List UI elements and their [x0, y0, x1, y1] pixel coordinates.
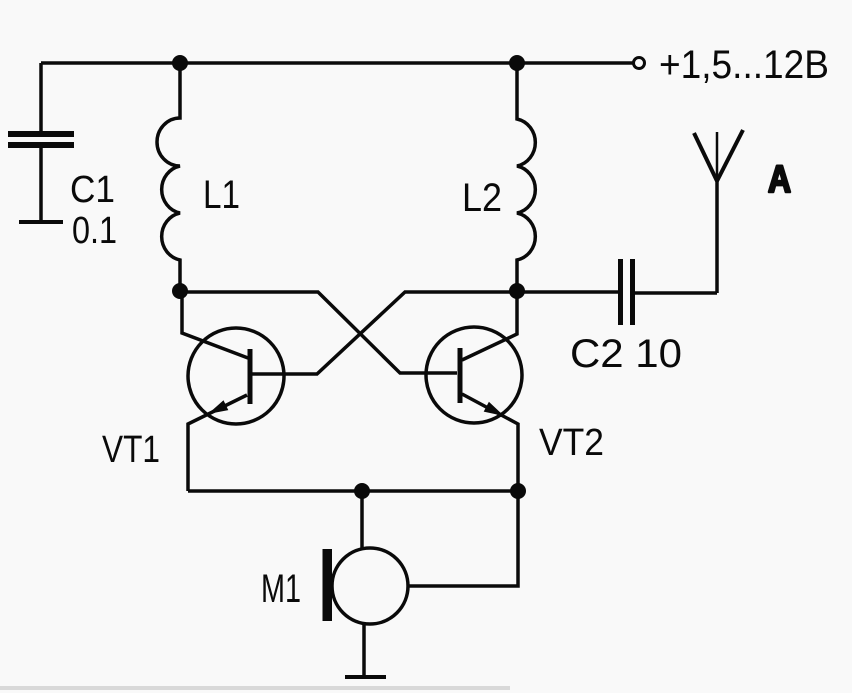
inductor L1	[157, 63, 180, 291]
label A antenna	[768, 159, 791, 201]
label L1	[203, 173, 240, 217]
capacitor C2	[618, 259, 635, 325]
node supply-L1	[172, 55, 188, 71]
transistor VT2	[426, 291, 522, 491]
ground M1	[345, 675, 386, 679]
svg-text:M1: M1	[261, 567, 301, 611]
microphone M1	[323, 548, 409, 624]
label VT2	[539, 422, 604, 464]
label C2 10	[570, 332, 682, 376]
terminal +V	[634, 58, 645, 69]
ground C1	[19, 220, 63, 224]
wire C1 top lead	[39, 63, 43, 131]
svg-text:C2 10: C2 10	[570, 332, 682, 376]
node emitter-VT2	[510, 483, 526, 499]
wire emitter bus	[188, 489, 518, 493]
antenna	[694, 130, 743, 293]
label VT1	[102, 429, 160, 471]
label +1,5...12V	[659, 43, 829, 87]
label 0.1	[72, 210, 117, 252]
inductor L2	[517, 63, 535, 291]
svg-text:+1,5...12В: +1,5...12В	[659, 43, 829, 87]
wire cross-couple node-A to VT2 base	[181, 292, 457, 373]
svg-text:L1: L1	[203, 173, 240, 217]
svg-text:C1: C1	[70, 169, 115, 211]
wire node-B to C2	[517, 290, 618, 294]
node emitter-mic	[354, 483, 370, 499]
svg-text:0.1: 0.1	[72, 210, 117, 252]
wire mic ground lead	[362, 622, 366, 677]
wire C2 to antenna	[635, 291, 717, 295]
capacitor C1	[8, 131, 74, 148]
transistor VT1	[182, 291, 284, 491]
wire mic output lead	[408, 491, 518, 586]
wire cross-couple node-B to VT1 base	[251, 292, 517, 374]
svg-text:VT1: VT1	[102, 429, 160, 471]
wire top supply rail	[41, 61, 633, 65]
node supply-L2	[509, 55, 525, 71]
wire mic top lead	[360, 491, 364, 550]
node L2-collector	[509, 283, 525, 299]
node L1-collector	[172, 283, 188, 299]
svg-text:A: A	[768, 159, 791, 201]
svg-text:L2: L2	[462, 176, 502, 220]
label C1	[70, 169, 115, 211]
svg-text:VT2: VT2	[539, 422, 604, 464]
label M1	[261, 567, 301, 611]
label L2	[462, 176, 502, 220]
wire C1 bottom lead	[39, 148, 43, 222]
